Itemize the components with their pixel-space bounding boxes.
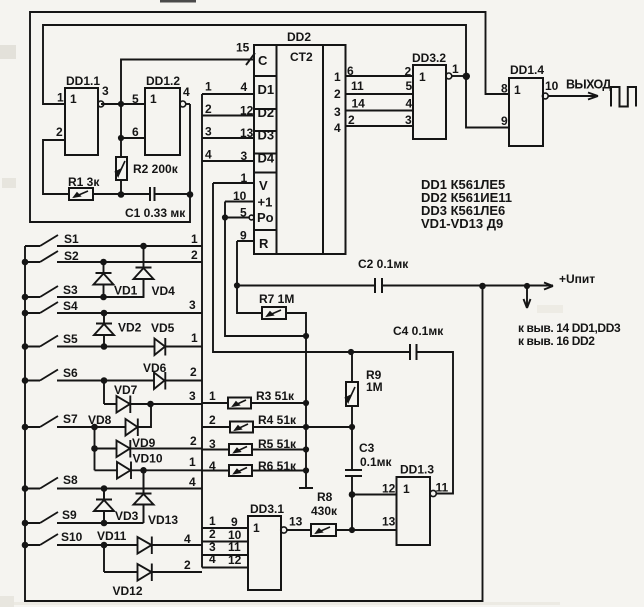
svg-text:VD9: VD9 xyxy=(132,436,156,450)
svg-text:VD10: VD10 xyxy=(133,452,163,466)
svg-text:S6: S6 xyxy=(63,366,78,380)
svg-text:VD4: VD4 xyxy=(152,284,176,298)
svg-text:VD5: VD5 xyxy=(151,321,175,335)
svg-text:2: 2 xyxy=(334,87,341,101)
svg-text:11: 11 xyxy=(436,481,449,495)
svg-text:S3: S3 xyxy=(63,283,78,297)
svg-text:C2 0.1мк: C2 0.1мк xyxy=(358,257,409,271)
svg-text:DD2: DD2 xyxy=(287,30,311,44)
svg-text:R2 200к: R2 200к xyxy=(133,162,179,176)
svg-text:R4 51к: R4 51к xyxy=(258,413,297,427)
svg-text:1: 1 xyxy=(209,389,216,403)
svg-text:3: 3 xyxy=(241,149,248,163)
svg-text:2: 2 xyxy=(209,413,216,427)
svg-text:D1: D1 xyxy=(258,82,275,97)
svg-text:VD8: VD8 xyxy=(88,413,112,427)
svg-text:S5: S5 xyxy=(63,332,78,346)
svg-text:R7 1M: R7 1M xyxy=(259,292,294,306)
svg-text:2: 2 xyxy=(184,558,191,572)
svg-text:DD1.4: DD1.4 xyxy=(510,63,544,77)
svg-text:2: 2 xyxy=(191,248,198,262)
svg-text:4: 4 xyxy=(184,532,191,546)
svg-text:Po: Po xyxy=(257,210,274,225)
svg-text:R3 51к: R3 51к xyxy=(256,389,295,403)
svg-text:C: C xyxy=(258,53,268,68)
svg-text:S9: S9 xyxy=(62,508,77,522)
svg-text:1: 1 xyxy=(150,92,157,106)
svg-text:3: 3 xyxy=(405,113,412,127)
svg-text:4: 4 xyxy=(205,148,212,162)
svg-text:3: 3 xyxy=(205,125,212,139)
svg-text:2: 2 xyxy=(405,65,412,79)
svg-text:1: 1 xyxy=(419,70,426,84)
svg-text:D2: D2 xyxy=(258,105,275,120)
svg-text:VD11: VD11 xyxy=(97,529,127,543)
svg-text:12: 12 xyxy=(240,104,254,118)
svg-text:1: 1 xyxy=(191,232,198,246)
svg-text:1: 1 xyxy=(241,171,248,185)
svg-text:3: 3 xyxy=(189,298,196,312)
svg-text:4: 4 xyxy=(209,552,216,566)
svg-text:V: V xyxy=(259,178,268,193)
svg-text:9: 9 xyxy=(501,114,508,128)
svg-text:VD6: VD6 xyxy=(143,361,167,375)
svg-text:DD1.1: DD1.1 xyxy=(66,74,100,88)
svg-text:2: 2 xyxy=(190,365,197,379)
svg-text:DD3.1: DD3.1 xyxy=(250,502,284,516)
svg-text:VD3: VD3 xyxy=(115,509,139,523)
svg-text:VD12: VD12 xyxy=(113,584,143,598)
svg-text:3: 3 xyxy=(334,105,341,119)
svg-text:13: 13 xyxy=(289,515,303,529)
svg-text:S10: S10 xyxy=(61,530,83,544)
svg-text:4: 4 xyxy=(209,459,216,473)
svg-text:VD7: VD7 xyxy=(114,383,138,397)
svg-text:D3: D3 xyxy=(258,128,275,143)
svg-text:R6 51к: R6 51к xyxy=(258,459,297,473)
svg-text:5: 5 xyxy=(132,92,139,106)
svg-text:VD2: VD2 xyxy=(118,321,142,335)
svg-text:C4 0.1мк: C4 0.1мк xyxy=(393,324,444,338)
svg-text:ВЫХОД: ВЫХОД xyxy=(566,78,611,92)
svg-text:4: 4 xyxy=(183,85,190,99)
svg-text:к выв. 14 DD1,DD3: к выв. 14 DD1,DD3 xyxy=(518,321,621,335)
svg-text:3: 3 xyxy=(209,437,216,451)
svg-text:9: 9 xyxy=(231,515,238,529)
svg-text:1: 1 xyxy=(191,331,198,345)
svg-text:1: 1 xyxy=(514,83,521,97)
svg-text:12: 12 xyxy=(228,553,242,567)
svg-text:1: 1 xyxy=(334,70,341,84)
svg-text:14: 14 xyxy=(352,97,366,111)
svg-text:3: 3 xyxy=(102,84,109,98)
svg-text:10: 10 xyxy=(545,79,559,93)
svg-text:C3: C3 xyxy=(359,441,375,455)
svg-text:R8: R8 xyxy=(317,490,333,504)
svg-text:4: 4 xyxy=(241,80,248,94)
svg-text:2: 2 xyxy=(56,125,63,139)
svg-text:2: 2 xyxy=(190,434,197,448)
svg-text:3: 3 xyxy=(189,389,196,403)
svg-text:VD13: VD13 xyxy=(148,513,178,527)
svg-text:S4: S4 xyxy=(63,299,78,313)
svg-text:1M: 1M xyxy=(366,380,383,394)
svg-text:1: 1 xyxy=(452,62,459,76)
svg-text:1: 1 xyxy=(205,80,212,94)
svg-text:1: 1 xyxy=(189,455,196,469)
svg-text:15: 15 xyxy=(236,41,250,55)
svg-text:10: 10 xyxy=(233,189,247,203)
svg-text:6: 6 xyxy=(132,125,139,139)
svg-text:1: 1 xyxy=(253,521,260,535)
svg-text:DD1.2: DD1.2 xyxy=(146,74,180,88)
svg-text:13: 13 xyxy=(382,515,396,529)
svg-text:S8: S8 xyxy=(63,473,78,487)
svg-text:к выв. 16 DD2: к выв. 16 DD2 xyxy=(518,334,595,348)
svg-text:4: 4 xyxy=(406,97,413,111)
svg-text:6: 6 xyxy=(347,64,354,78)
svg-text:R: R xyxy=(259,236,269,251)
svg-text:1: 1 xyxy=(209,514,216,528)
svg-text:R5 51к: R5 51к xyxy=(258,437,297,451)
svg-text:2: 2 xyxy=(209,527,216,541)
svg-text:S7: S7 xyxy=(63,412,78,426)
svg-text:VD1-VD13 Д9: VD1-VD13 Д9 xyxy=(421,216,503,231)
svg-text:2: 2 xyxy=(205,102,212,116)
svg-text:2: 2 xyxy=(348,113,355,127)
svg-text:+Uпит: +Uпит xyxy=(559,272,595,286)
svg-text:DD3.2: DD3.2 xyxy=(412,51,446,65)
svg-text:1: 1 xyxy=(70,92,77,106)
svg-text:+1: +1 xyxy=(258,195,273,210)
svg-text:S1: S1 xyxy=(64,232,79,246)
svg-text:12: 12 xyxy=(382,482,396,496)
svg-text:5: 5 xyxy=(240,206,247,220)
svg-text:VD1: VD1 xyxy=(114,284,138,298)
svg-text:9: 9 xyxy=(240,229,247,243)
svg-text:D4: D4 xyxy=(258,151,275,166)
svg-text:DD1.3: DD1.3 xyxy=(400,463,434,477)
svg-text:11: 11 xyxy=(228,540,241,554)
svg-text:13: 13 xyxy=(240,126,254,140)
svg-text:R1 3к: R1 3к xyxy=(68,175,100,189)
svg-text:S2: S2 xyxy=(64,249,79,263)
svg-text:0.1мк: 0.1мк xyxy=(360,455,393,469)
svg-text:C1 0.33 мк: C1 0.33 мк xyxy=(125,206,186,220)
svg-text:5: 5 xyxy=(406,79,413,93)
svg-text:8: 8 xyxy=(501,82,508,96)
svg-text:430к: 430к xyxy=(311,504,338,518)
svg-text:4: 4 xyxy=(189,475,196,489)
svg-text:1: 1 xyxy=(57,91,64,105)
svg-text:1: 1 xyxy=(403,482,410,496)
svg-text:4: 4 xyxy=(334,121,341,135)
svg-text:11: 11 xyxy=(351,79,364,93)
svg-text:CT2: CT2 xyxy=(290,50,313,64)
